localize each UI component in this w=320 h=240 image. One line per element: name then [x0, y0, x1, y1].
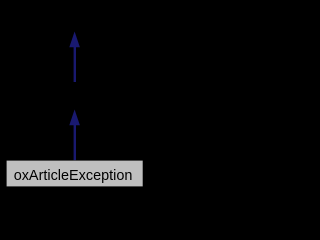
- svg-text:oxArticleException: oxArticleException: [14, 168, 133, 184]
- inheritance arrow (top): hidden grandparent-class edge: [69, 32, 80, 83]
- inheritance arrow (bottom): oxArticleException to parent class: [69, 110, 80, 161]
- class node oxArticleException (current class, gray fill): [7, 161, 143, 187]
